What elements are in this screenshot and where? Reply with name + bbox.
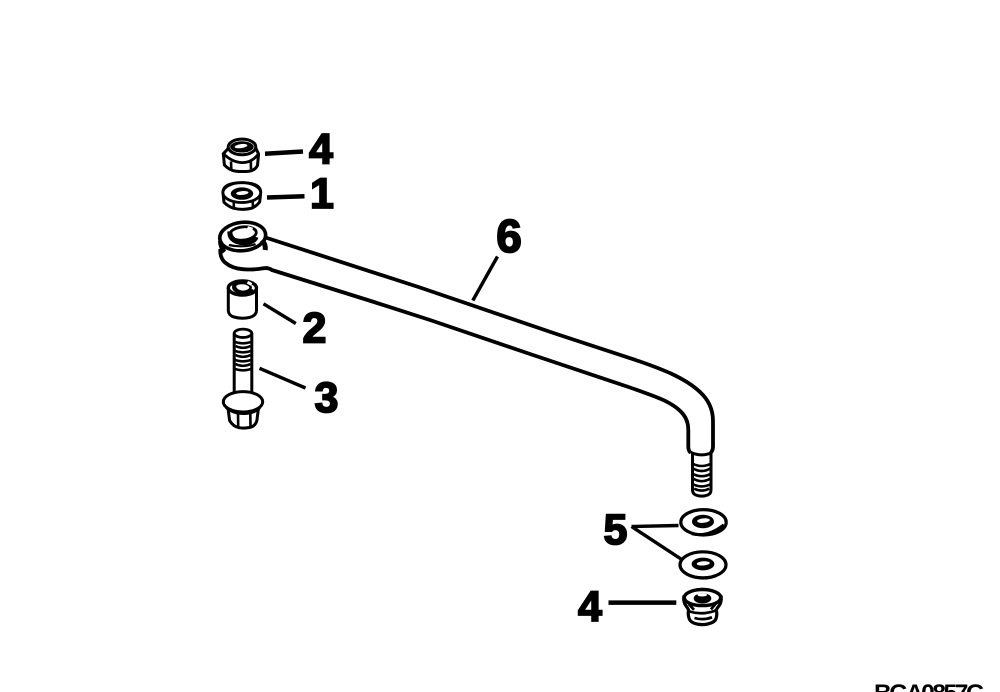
- bolt 3 : hex head facet lines: [238, 412, 251, 427]
- washer 5b (lower) : hole: [692, 558, 715, 571]
- spacer 2 : side walls: [228, 288, 256, 311]
- svg-text:4: 4: [578, 583, 602, 631]
- flange nut 4 (bottom) : silhouette: [684, 589, 722, 624]
- spacer 2 : bore gap highlight: [248, 282, 252, 284]
- link rod 6 : eye boss bottom arc: [229, 244, 256, 246]
- svg-text:1: 1: [310, 170, 334, 218]
- link rod 6 : eye inner ring gap highlight: [248, 228, 253, 230]
- svg-text:4: 4: [309, 126, 333, 174]
- link rod 6 : eye outer ellipse: [218, 220, 267, 253]
- flange nut 4 (bottom) : facet lines: [689, 603, 717, 610]
- nut 1 : hole: [231, 187, 253, 199]
- bolt 3 : hex head silhouette: [228, 410, 258, 429]
- washer 5a (upper) : edge thickness arc: [692, 525, 724, 535]
- leader line to label 1: [267, 196, 305, 197]
- locknut 4 (top) : hole highlight: [234, 143, 247, 149]
- link rod 6 : eye boss left wall: [220, 241, 224, 252]
- rod stud : shoulder arc: [691, 453, 712, 455]
- locknut 4 (top) : collar top ellipse: [228, 139, 256, 155]
- washer 5a (upper) : outer ellipse: [681, 510, 726, 535]
- link rod 6 : eye inner ring: [229, 226, 257, 242]
- flange nut 4 (bottom) : hole: [694, 593, 712, 603]
- washer 5b (lower) : edge thickness arc: [681, 569, 716, 578]
- flange nut 4 (bottom) : hole highlight: [697, 593, 707, 596]
- link rod 6 : body bottom and bottom edge with elbow: [220, 249, 690, 453]
- svg-text:2: 2: [303, 305, 327, 353]
- washer 5a (upper) : hole: [692, 515, 714, 529]
- spacer 2 : bore: [233, 283, 250, 292]
- nut 1 : top face ellipse: [223, 183, 261, 203]
- bolt 3 : flange ellipse: [223, 392, 262, 412]
- svg-text:BGA0857G: BGA0857G: [874, 680, 985, 692]
- leader line to label 2: [264, 304, 296, 324]
- washer 5a (upper) : hole slot highlight: [697, 518, 710, 524]
- link rod 6 : top edge with elbow: [266, 238, 714, 453]
- bolt 3 : shank side walls: [234, 333, 252, 395]
- spacer 2 : bore heavy crescent: [234, 285, 251, 293]
- locknut 4 (top) : hex/collar boundary arc: [224, 154, 259, 163]
- svg-text:3: 3: [315, 374, 339, 422]
- flange nut 4 (bottom) : bottom rim arc: [695, 617, 713, 619]
- svg-text:6: 6: [496, 210, 522, 262]
- washer 5b (lower) : outer ellipse: [680, 552, 726, 578]
- bolt 3 : tip ellipse: [234, 329, 252, 337]
- leader line to label 4 (bottom): [609, 600, 677, 605]
- leader lines to label 5: [632, 526, 682, 560]
- bolt 3 : flange bottom rim arc: [226, 408, 260, 414]
- spacer 2 : bottom arc: [228, 311, 256, 318]
- spacer 2 : top ellipse: [228, 281, 256, 295]
- flange nut 4 (bottom) : hex/skirt boundary: [689, 611, 715, 614]
- link rod 6 : eye boss right wall comma: [262, 240, 265, 250]
- rod stud : side walls and tip: [693, 453, 712, 496]
- locknut 4 (top) : hole (nylon insert): [230, 141, 254, 152]
- svg-text:5: 5: [604, 506, 628, 554]
- nut 1 : hole highlight slot: [236, 191, 249, 196]
- locknut 4 (top) : hex facet lines: [231, 161, 251, 169]
- flange nut 4 (bottom) : top ellipse: [684, 590, 720, 606]
- link rod 6 : eye inner heavy crescent: [230, 232, 256, 243]
- nut 1 : facet lines: [234, 201, 253, 209]
- rod stud : thread lines: [692, 464, 711, 491]
- nut 1 : silhouette: [223, 183, 261, 210]
- bolt 3 : thread lines: [234, 342, 252, 371]
- leader line to label 4 (top): [265, 152, 303, 154]
- washer 5b (lower) : hole slot highlight: [697, 561, 710, 566]
- locknut 4 (top) : hex base silhouette: [223, 139, 258, 171]
- leader line to label 6: [473, 257, 498, 301]
- leader line to label 3: [260, 368, 306, 388]
